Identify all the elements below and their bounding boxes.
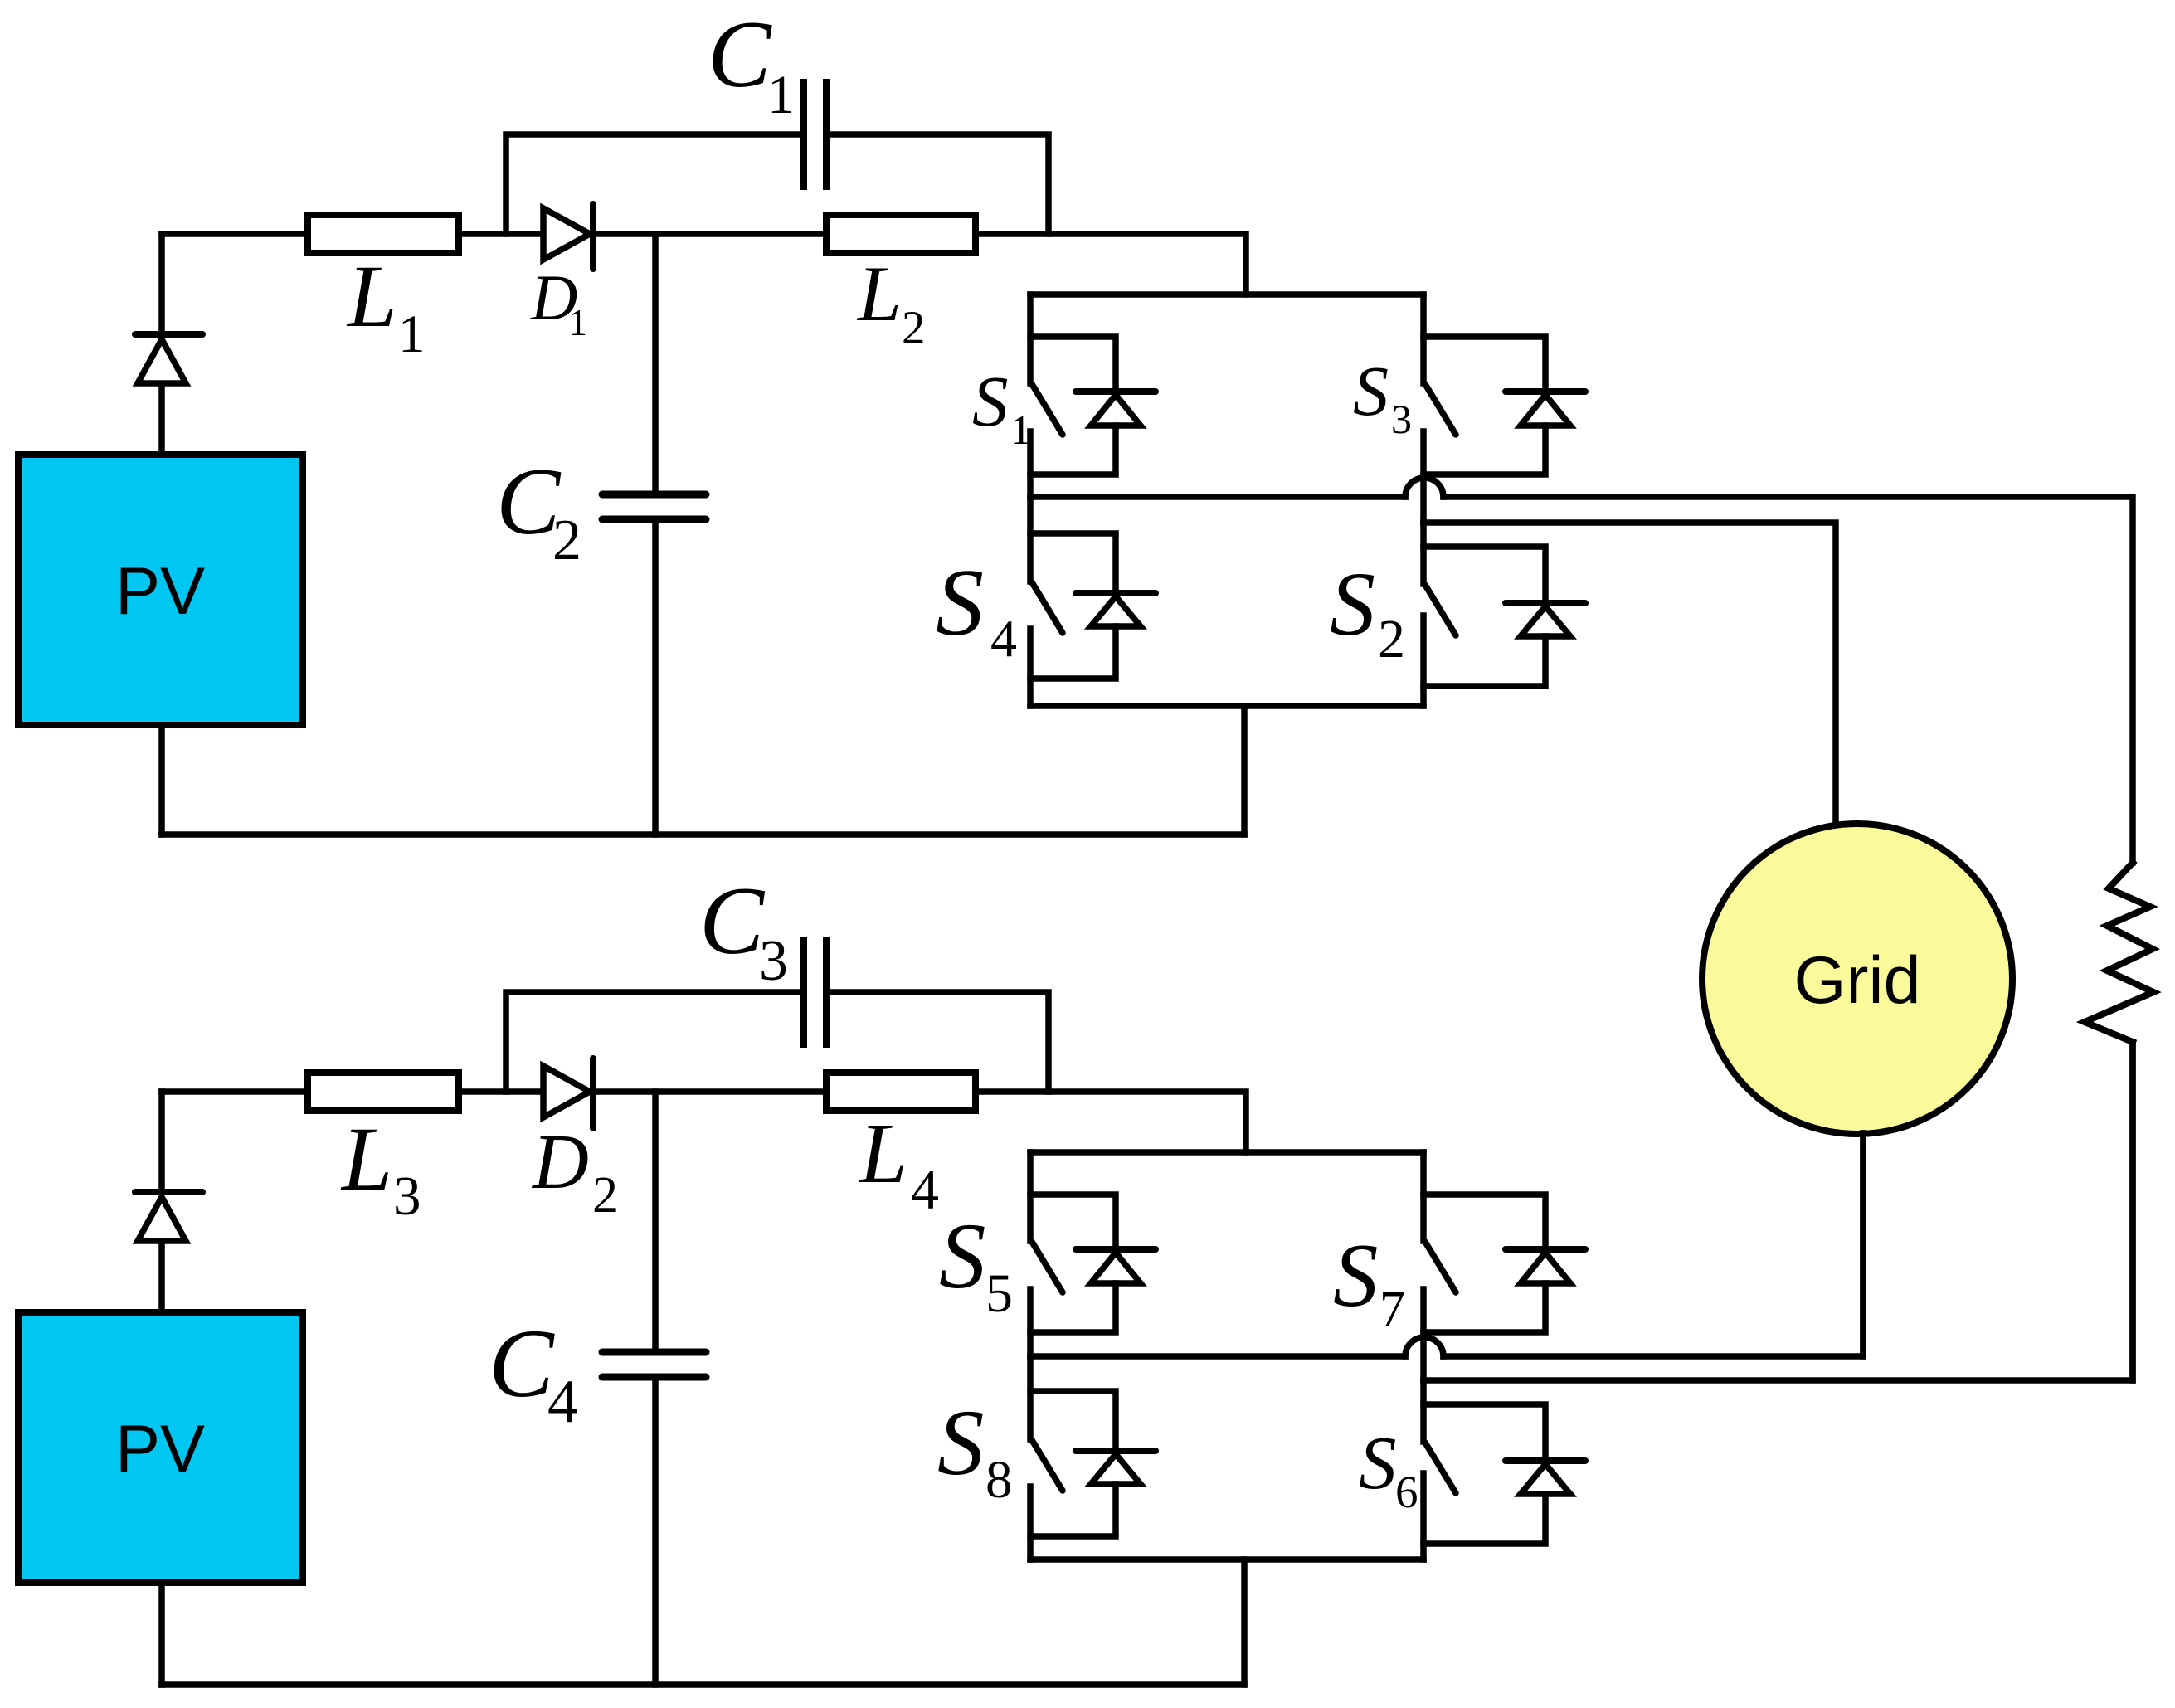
svg-text:1: 1 xyxy=(568,301,587,343)
switch S1 xyxy=(1030,294,1063,497)
svg-text:4: 4 xyxy=(990,609,1017,668)
switch S6 xyxy=(1423,1380,1456,1560)
wire bridge1 top rail xyxy=(1030,291,1423,298)
wire L2 to bridge1 feed xyxy=(976,234,1246,294)
inductor L2 xyxy=(826,215,976,253)
svg-text:3: 3 xyxy=(393,1165,421,1227)
svg-text:4: 4 xyxy=(911,1158,939,1221)
switch S7 xyxy=(1423,1152,1456,1380)
svg-text:L: L xyxy=(346,248,397,346)
svg-text:7: 7 xyxy=(1379,1282,1405,1338)
svg-text:2: 2 xyxy=(902,302,926,354)
svg-text:S: S xyxy=(937,1391,985,1495)
svg-text:S: S xyxy=(936,550,984,656)
switch S3 xyxy=(1423,294,1456,523)
svg-text:1: 1 xyxy=(398,304,426,364)
svg-text:L: L xyxy=(856,250,902,338)
svg-text:3: 3 xyxy=(1391,396,1412,442)
diode S6 antiparallel xyxy=(1423,1404,1585,1544)
svg-text:S: S xyxy=(1330,553,1375,654)
svg-text:6: 6 xyxy=(1395,1467,1418,1517)
svg-text:8: 8 xyxy=(985,1450,1013,1510)
wire circuit2 bottom rail xyxy=(162,1583,1244,1685)
switch S4 xyxy=(1030,497,1063,706)
PV module 2 xyxy=(18,1312,303,1583)
svg-text:S: S xyxy=(1359,1421,1397,1505)
capacitor C2 xyxy=(602,234,706,835)
resistor R xyxy=(2085,863,2153,1042)
output line bridge1 right midpoint xyxy=(1423,523,1836,825)
svg-text:D: D xyxy=(531,1119,589,1205)
diode S5 antiparallel xyxy=(1030,1195,1156,1332)
svg-text:L: L xyxy=(858,1106,907,1201)
diode S7 antiparallel xyxy=(1423,1195,1585,1332)
capacitor C4 xyxy=(602,1092,706,1685)
wire bridge2 bottom rail xyxy=(1030,1556,1423,1563)
svg-text:1: 1 xyxy=(767,65,795,125)
wire bridge2 bottom to rail xyxy=(1241,1560,1248,1685)
wire PV2 top lead xyxy=(158,1241,165,1312)
svg-text:S: S xyxy=(1353,351,1389,431)
svg-text:5: 5 xyxy=(985,1263,1013,1324)
svg-text:C: C xyxy=(489,1309,555,1418)
wire bridge1 bottom to rail xyxy=(1241,706,1248,835)
inductor L4 xyxy=(826,1073,976,1111)
svg-text:1: 1 xyxy=(1010,406,1031,453)
diode S3 antiparallel xyxy=(1423,337,1585,474)
diode S4 antiparallel xyxy=(1030,533,1156,679)
svg-text:PV: PV xyxy=(115,1412,205,1487)
diode PV1 blocking xyxy=(135,234,202,383)
svg-text:2: 2 xyxy=(552,509,581,572)
wire bridge1 bottom rail xyxy=(1030,703,1423,709)
diode S8 antiparallel xyxy=(1030,1391,1156,1536)
capacitor C1 branch xyxy=(506,82,1049,234)
svg-text:C: C xyxy=(708,2,772,107)
wire PV1 top lead xyxy=(158,383,165,455)
wire resistor bottom xyxy=(2129,1042,2136,1380)
wire circuit1 bottom rail xyxy=(162,725,1244,835)
svg-text:C: C xyxy=(699,868,766,975)
wire L4 to bridge2 feed xyxy=(976,1092,1246,1152)
svg-text:L: L xyxy=(340,1108,392,1209)
svg-text:2: 2 xyxy=(1378,609,1405,669)
wire circuit2 main left xyxy=(162,1088,308,1095)
svg-text:3: 3 xyxy=(759,929,788,993)
diode D2 xyxy=(543,1058,826,1128)
switch S8 xyxy=(1030,1356,1063,1560)
inductor L3 xyxy=(308,1073,459,1111)
inductor L1 xyxy=(308,215,459,253)
grid source xyxy=(1702,824,2012,1134)
output line bridge2 left midpoint with hop xyxy=(1030,1133,1863,1356)
svg-text:PV: PV xyxy=(115,554,205,629)
wire bridge2 top rail xyxy=(1030,1149,1423,1156)
wire top main left xyxy=(162,231,308,237)
svg-text:2: 2 xyxy=(592,1167,618,1224)
svg-text:S: S xyxy=(939,1204,986,1308)
svg-text:S: S xyxy=(972,361,1009,441)
diode S2 antiparallel xyxy=(1423,547,1585,686)
capacitor C3 branch xyxy=(506,940,1049,1092)
diode S1 antiparallel xyxy=(1030,337,1156,474)
wire L3 to D2 xyxy=(459,1088,543,1095)
diode PV2 blocking xyxy=(135,1092,202,1241)
wire grid bottom xyxy=(1860,1133,1866,1356)
svg-text:4: 4 xyxy=(547,1368,578,1436)
switch S2 xyxy=(1423,523,1456,706)
wire L1 to D1 xyxy=(459,231,543,237)
svg-text:Grid: Grid xyxy=(1793,943,1920,1018)
diode D1 xyxy=(543,204,826,269)
svg-text:S: S xyxy=(1333,1225,1379,1326)
switch S5 xyxy=(1030,1152,1063,1356)
output line bridge1 left midpoint with hop xyxy=(1030,478,2133,863)
PV module 1 xyxy=(18,455,303,725)
output line bridge2 right midpoint xyxy=(1423,1042,2133,1380)
